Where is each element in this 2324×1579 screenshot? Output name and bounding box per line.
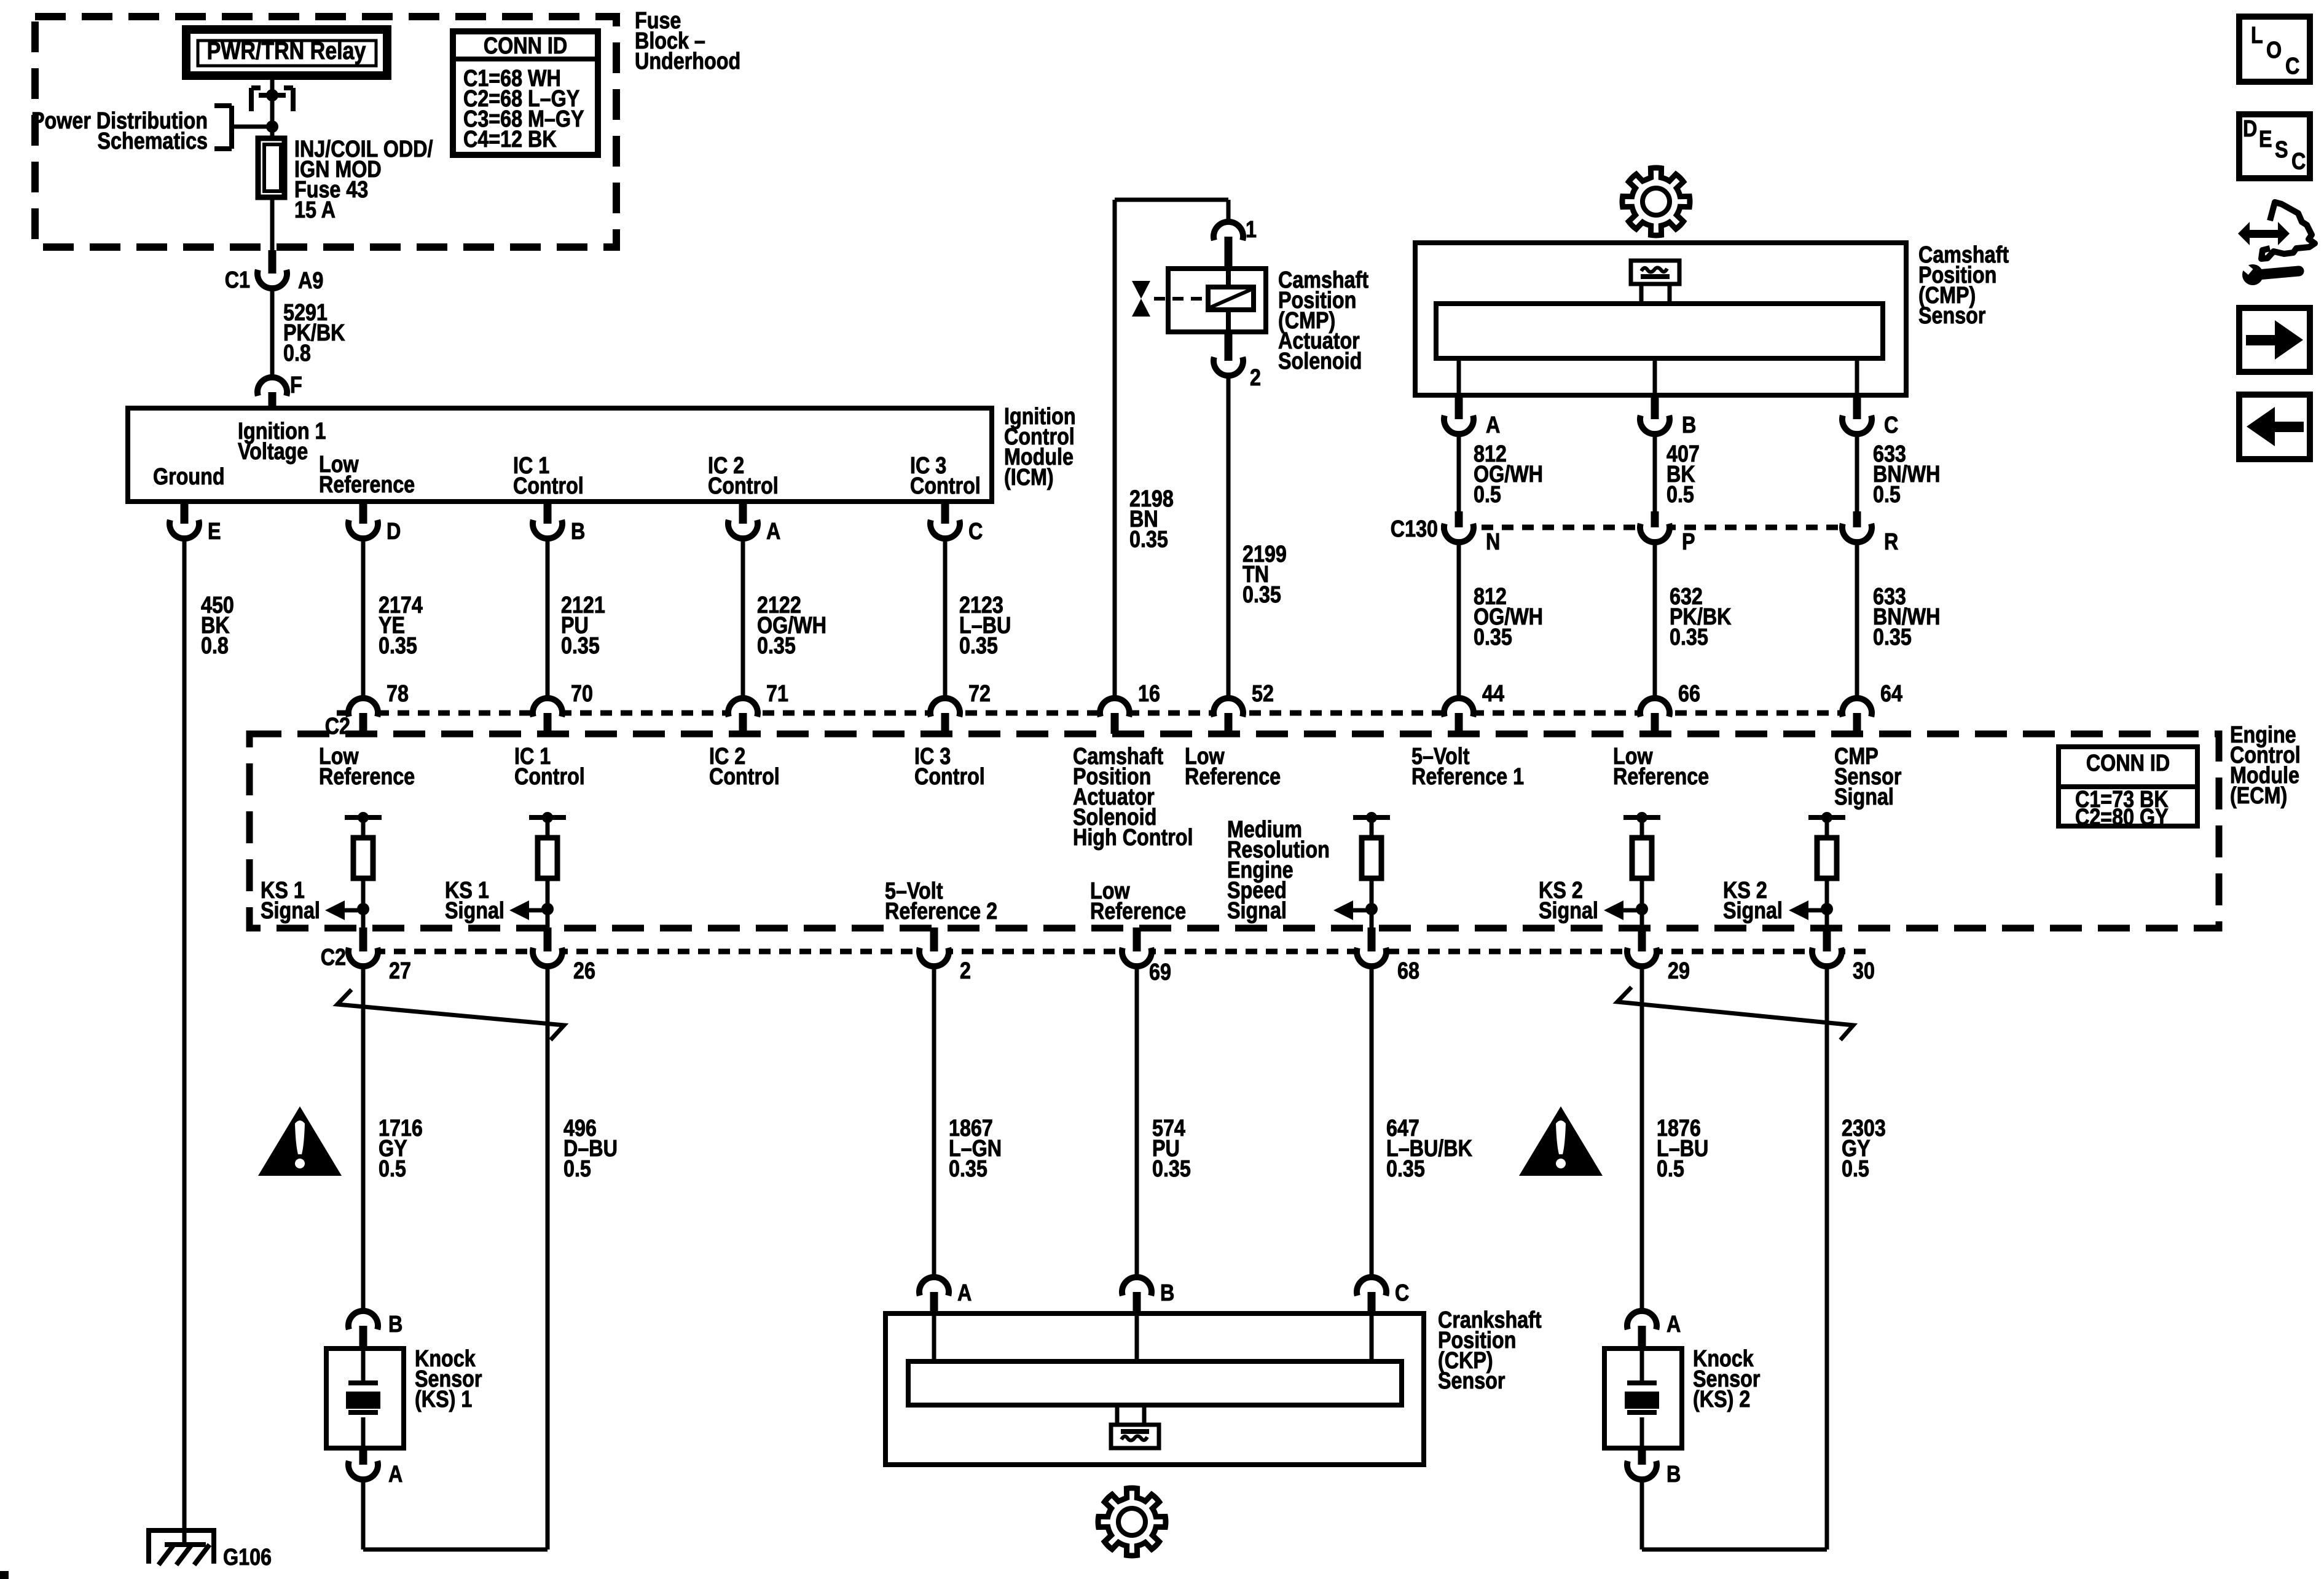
svg-text:Reference 2: Reference 2: [885, 899, 997, 924]
svg-text:2: 2: [1250, 365, 1261, 391]
svg-text:0.35: 0.35: [1474, 624, 1512, 650]
svg-text:PWR/TRN Relay: PWR/TRN Relay: [207, 36, 366, 64]
svg-text:Reference: Reference: [319, 472, 415, 498]
svg-text:0.35: 0.35: [379, 633, 417, 659]
svg-text:CONN ID: CONN ID: [2086, 750, 2170, 776]
svg-text:0.35: 0.35: [1386, 1156, 1425, 1182]
svg-text:2: 2: [960, 958, 971, 984]
svg-text:A9: A9: [298, 268, 323, 294]
svg-text:A: A: [1486, 412, 1500, 438]
svg-text:F: F: [290, 372, 302, 398]
svg-text:A: A: [1666, 1312, 1681, 1337]
svg-text:Reference 1: Reference 1: [1411, 764, 1524, 790]
svg-text:64: 64: [1880, 681, 1902, 707]
svg-text:0.5: 0.5: [379, 1156, 406, 1182]
svg-text:Solenoid: Solenoid: [1278, 348, 1362, 374]
svg-text:B: B: [1666, 1462, 1681, 1487]
svg-text:(ICM): (ICM): [1004, 465, 1054, 490]
svg-text:C130: C130: [1391, 516, 1438, 542]
svg-text:0.5: 0.5: [563, 1156, 591, 1182]
svg-text:N: N: [1486, 529, 1500, 555]
svg-text:30: 30: [1853, 958, 1875, 984]
svg-text:0.5: 0.5: [1657, 1156, 1684, 1182]
svg-text:0.35: 0.35: [1670, 624, 1708, 650]
svg-text:C: C: [1884, 412, 1898, 438]
svg-text:Reference: Reference: [1613, 764, 1709, 790]
svg-text:Sensor: Sensor: [1438, 1368, 1505, 1394]
svg-text:B: B: [571, 519, 585, 545]
svg-text:70: 70: [571, 681, 593, 707]
svg-text:Reference: Reference: [1185, 764, 1281, 790]
svg-text:27: 27: [389, 958, 411, 984]
svg-text:Reference: Reference: [1090, 899, 1186, 924]
svg-text:0.35: 0.35: [1242, 582, 1281, 608]
svg-text:Control: Control: [513, 473, 584, 499]
svg-text:Control: Control: [709, 764, 780, 790]
svg-text:B: B: [1160, 1280, 1174, 1306]
svg-text:Control: Control: [910, 473, 981, 499]
svg-text:C2: C2: [321, 945, 346, 971]
svg-text:CONN ID: CONN ID: [484, 33, 567, 59]
svg-text:A: A: [957, 1280, 972, 1306]
svg-text:R: R: [1884, 529, 1898, 555]
svg-text:29: 29: [1668, 958, 1690, 984]
svg-text:B: B: [388, 1312, 402, 1337]
svg-text:C: C: [2285, 53, 2299, 79]
svg-text:Sensor: Sensor: [1918, 303, 1986, 329]
svg-text:C: C: [2291, 149, 2306, 175]
svg-text:0.5: 0.5: [1666, 482, 1694, 508]
svg-text:69: 69: [1149, 959, 1171, 985]
svg-text:26: 26: [573, 958, 595, 984]
svg-text:P: P: [1682, 529, 1695, 555]
svg-text:A: A: [766, 519, 780, 545]
svg-text:Signal: Signal: [1539, 898, 1598, 924]
svg-text:0.35: 0.35: [1152, 1156, 1191, 1182]
svg-text:B: B: [1682, 412, 1696, 438]
svg-text:Ground: Ground: [153, 464, 225, 490]
svg-text:66: 66: [1678, 681, 1700, 707]
svg-text:0.5: 0.5: [1842, 1156, 1869, 1182]
svg-text:0.35: 0.35: [949, 1156, 987, 1182]
svg-text:68: 68: [1397, 958, 1419, 984]
svg-text:44: 44: [1482, 681, 1504, 707]
svg-text:D: D: [2243, 116, 2257, 142]
svg-text:78: 78: [387, 681, 409, 707]
svg-text:Signal: Signal: [1227, 898, 1287, 924]
svg-text:15 A: 15 A: [294, 197, 336, 223]
svg-text:Voltage: Voltage: [238, 439, 308, 465]
svg-text:High Control: High Control: [1073, 825, 1193, 851]
svg-text:L: L: [2251, 23, 2263, 49]
svg-text:72: 72: [968, 681, 991, 707]
svg-text:Signal: Signal: [445, 898, 504, 924]
svg-text:0.35: 0.35: [1129, 527, 1168, 553]
svg-text:0.35: 0.35: [561, 633, 600, 659]
svg-text:Schematics: Schematics: [98, 128, 208, 154]
svg-text:Signal: Signal: [261, 898, 320, 924]
svg-text:E: E: [208, 519, 221, 545]
svg-text:52: 52: [1252, 681, 1274, 707]
svg-text:(KS) 1: (KS) 1: [415, 1387, 472, 1412]
svg-text:Signal: Signal: [1834, 784, 1894, 810]
svg-text:(ECM): (ECM): [2230, 783, 2287, 809]
svg-text:Control: Control: [708, 473, 779, 499]
svg-text:0.35: 0.35: [1873, 624, 1912, 650]
svg-text:C4=12 BK: C4=12 BK: [463, 127, 557, 152]
svg-text:0.35: 0.35: [757, 633, 796, 659]
svg-text:E: E: [2259, 127, 2272, 152]
svg-text:Signal: Signal: [1723, 898, 1783, 924]
svg-text:Control: Control: [914, 764, 985, 790]
svg-text:0.8: 0.8: [201, 633, 229, 659]
svg-text:C2=80 GY: C2=80 GY: [2075, 805, 2169, 830]
svg-text:1: 1: [1246, 217, 1257, 243]
svg-text:71: 71: [766, 681, 788, 707]
svg-text:Reference: Reference: [319, 764, 415, 790]
svg-text:Control: Control: [514, 764, 585, 790]
svg-text:0.5: 0.5: [1873, 482, 1901, 508]
svg-text:C1: C1: [225, 267, 250, 293]
svg-text:(KS) 2: (KS) 2: [1693, 1387, 1750, 1412]
svg-text:A: A: [388, 1462, 402, 1487]
svg-text:S: S: [2275, 137, 2288, 163]
svg-text:D: D: [387, 519, 401, 545]
svg-text:0.8: 0.8: [283, 341, 311, 366]
svg-text:0.35: 0.35: [959, 633, 998, 659]
svg-text:Underhood: Underhood: [635, 49, 740, 74]
svg-text:0.5: 0.5: [1474, 482, 1501, 508]
svg-text:O: O: [2266, 37, 2282, 63]
svg-text:C: C: [1395, 1280, 1409, 1306]
svg-text:16: 16: [1138, 681, 1160, 707]
svg-text:G106: G106: [223, 1545, 272, 1570]
svg-text:C: C: [968, 519, 983, 545]
